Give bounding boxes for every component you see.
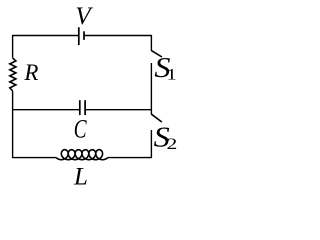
node left T-junction xyxy=(12,109,14,111)
wire right vertical stub below S2 xyxy=(150,130,152,158)
svg-text:L: L xyxy=(73,164,88,191)
svg-text:2: 2 xyxy=(167,135,178,153)
battery V xyxy=(79,27,84,45)
wire top-left horizontal (battery left lead) xyxy=(13,35,78,37)
wire right vertical stub above S1 xyxy=(150,35,152,51)
switch S2 blade xyxy=(151,114,161,122)
wire middle-right horizontal (capacitor right lead) xyxy=(85,109,151,111)
capacitor C xyxy=(80,100,85,115)
wire top-right horizontal (battery right lead) xyxy=(85,35,152,37)
wire left vertical lower xyxy=(12,91,14,158)
wire left vertical upper xyxy=(12,35,14,58)
svg-text:V: V xyxy=(75,3,93,30)
wire right vertical between S1 and S2 xyxy=(150,63,152,115)
resistor R xyxy=(10,58,16,91)
svg-text:R: R xyxy=(23,60,38,85)
wire bottom-right horizontal (inductor right lead) xyxy=(108,157,152,159)
switch S1 blade xyxy=(151,51,162,57)
inductor L xyxy=(56,150,108,160)
svg-text:1: 1 xyxy=(166,66,176,84)
node right T-junction xyxy=(150,109,152,111)
wire middle-left horizontal (capacitor left lead) xyxy=(13,109,80,111)
wire bottom-left horizontal (inductor left lead) xyxy=(13,157,57,159)
svg-text:C: C xyxy=(74,113,87,143)
